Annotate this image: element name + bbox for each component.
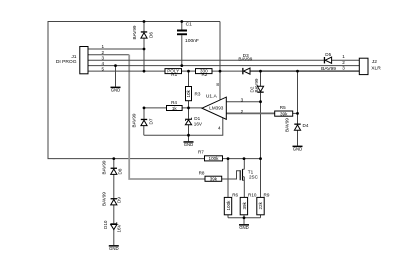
svg-text:BAV99: BAV99 xyxy=(102,160,107,174)
svg-text:2: 2 xyxy=(102,50,105,55)
svg-text:2: 2 xyxy=(241,109,244,114)
svg-text:5: 5 xyxy=(102,66,105,71)
svg-text:R2: R2 xyxy=(201,72,207,77)
svg-text:1: 1 xyxy=(102,44,105,49)
svg-text:LM393: LM393 xyxy=(209,106,223,111)
svg-text:D1: D1 xyxy=(194,116,200,121)
svg-text:DI PROG: DI PROG xyxy=(56,59,77,65)
svg-text:2SC: 2SC xyxy=(249,174,259,179)
svg-text:BAV99: BAV99 xyxy=(321,66,336,72)
svg-text:D10: D10 xyxy=(103,220,108,229)
svg-text:BAV99: BAV99 xyxy=(238,57,252,62)
svg-text:BAV99: BAV99 xyxy=(285,118,290,132)
svg-text:R4: R4 xyxy=(171,100,177,105)
svg-text:3: 3 xyxy=(241,97,244,102)
svg-text:D5: D5 xyxy=(325,52,331,57)
svg-text:R7: R7 xyxy=(198,149,204,154)
svg-text:16V: 16V xyxy=(117,223,122,232)
svg-text:BAV99: BAV99 xyxy=(132,25,137,39)
svg-text:10k: 10k xyxy=(186,89,191,97)
svg-text:100k: 100k xyxy=(226,200,231,211)
svg-text:4: 4 xyxy=(102,61,105,66)
svg-text:16V: 16V xyxy=(194,121,203,126)
svg-text:D8: D8 xyxy=(118,168,123,174)
svg-text:R10: R10 xyxy=(248,192,257,197)
svg-text:D7: D7 xyxy=(149,118,154,124)
svg-text:R8: R8 xyxy=(199,171,205,176)
svg-text:R3: R3 xyxy=(195,91,201,96)
svg-text:1k: 1k xyxy=(172,106,178,111)
svg-text:1: 1 xyxy=(342,54,345,59)
svg-text:BAV99: BAV99 xyxy=(102,192,107,206)
svg-text:3: 3 xyxy=(342,66,345,71)
svg-text:R9: R9 xyxy=(264,192,270,197)
svg-text:39k: 39k xyxy=(280,111,288,116)
svg-text:2: 2 xyxy=(342,60,345,65)
svg-text:39k: 39k xyxy=(210,176,218,181)
svg-text:D6: D6 xyxy=(149,32,154,38)
svg-text:3: 3 xyxy=(102,55,105,60)
svg-text:100k: 100k xyxy=(209,156,220,161)
svg-text:D9: D9 xyxy=(117,197,122,203)
svg-text:39k: 39k xyxy=(242,201,247,209)
svg-text:R6: R6 xyxy=(232,192,238,197)
svg-text:100nF: 100nF xyxy=(185,38,199,44)
svg-text:8: 8 xyxy=(216,82,219,87)
svg-text:J1: J1 xyxy=(71,54,76,60)
svg-text:XLR: XLR xyxy=(371,65,381,71)
svg-text:U1.A: U1.A xyxy=(206,93,218,99)
svg-text:R5: R5 xyxy=(280,105,286,110)
svg-text:22k: 22k xyxy=(258,201,263,209)
svg-text:J2: J2 xyxy=(372,59,377,65)
svg-text:C1: C1 xyxy=(186,21,193,27)
svg-text:BAV99: BAV99 xyxy=(254,78,259,92)
svg-text:R1: R1 xyxy=(171,72,177,77)
svg-text:D4: D4 xyxy=(303,123,309,128)
svg-text:BAV99: BAV99 xyxy=(132,113,137,127)
svg-text:4: 4 xyxy=(218,125,221,130)
